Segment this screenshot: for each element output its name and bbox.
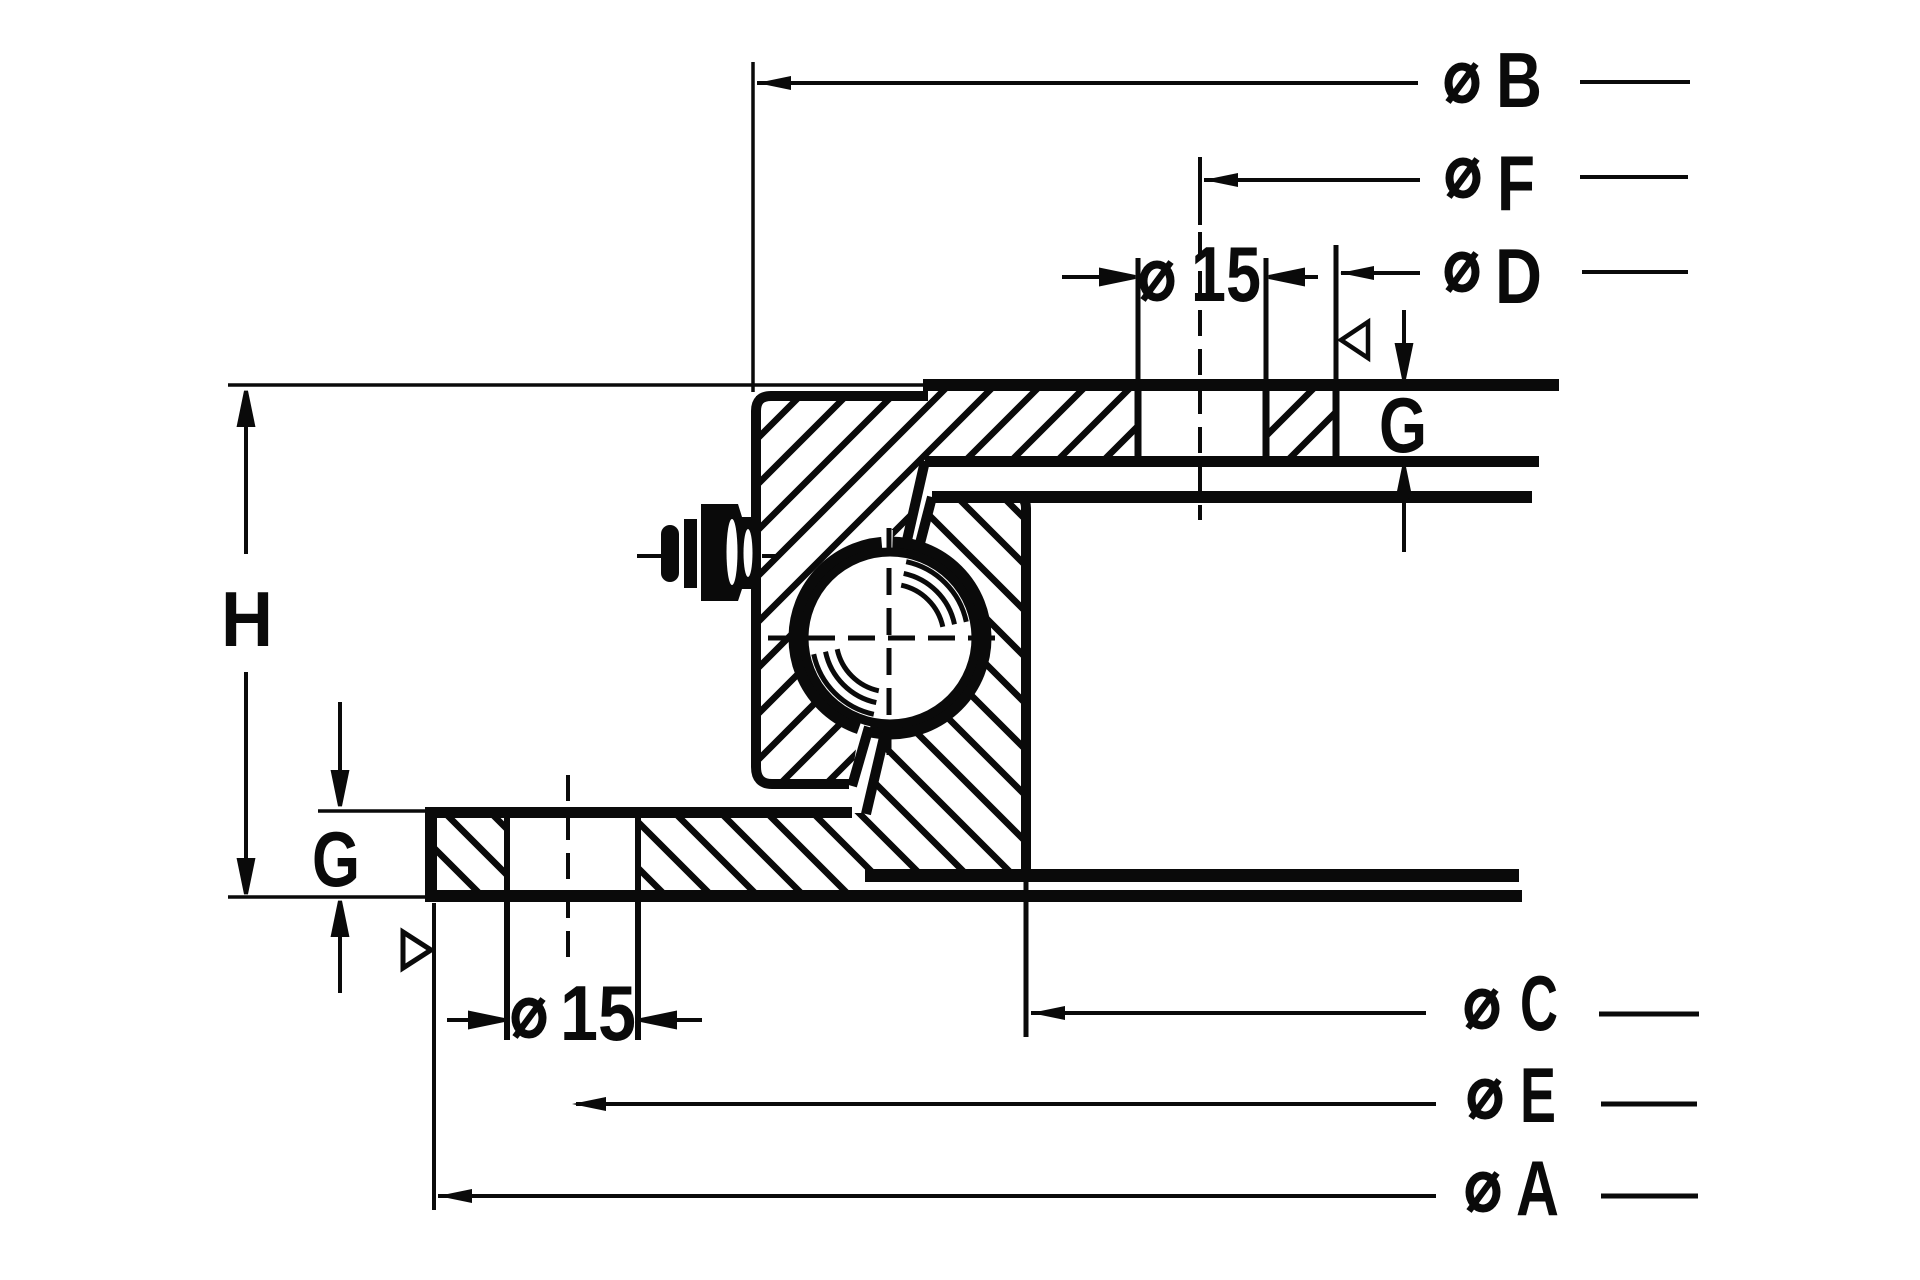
o15 bottom left arrow (447, 1013, 504, 1027)
oD flange edge (1333, 385, 1340, 461)
label oD (1448, 253, 1476, 291)
H bottom extension line (228, 895, 425, 899)
dimension oC line (1031, 1011, 1426, 1015)
raceway band (795, 543, 985, 733)
ball horizontal centerline (768, 636, 1008, 641)
o15 bottom right arrow (641, 1013, 702, 1027)
upper ring top seating line (923, 379, 1559, 391)
label oB (1448, 64, 1476, 102)
upper ring hatched body (756, 385, 1336, 784)
label oE (1471, 1080, 1499, 1118)
o15 top right arrow (1269, 270, 1318, 284)
grease nipple (661, 504, 757, 601)
oF right segment (1580, 175, 1688, 179)
oD arrowhead (1340, 266, 1374, 280)
lower plate top line (425, 807, 852, 818)
svg-text:15: 15 (1191, 230, 1261, 318)
label oC (1468, 990, 1496, 1028)
label oF (1449, 159, 1477, 197)
svg-text:A: A (1516, 1144, 1559, 1232)
oF dashed centerline (1198, 232, 1202, 520)
o15 top hole right wall (1263, 385, 1270, 461)
lower plate bottom line (425, 890, 1522, 902)
G bottom down arrow (333, 702, 347, 806)
G bottom up arrow (333, 901, 347, 993)
oE right segment (1601, 1102, 1697, 1107)
o15 bottom left extension (504, 818, 510, 1040)
G top up arrow (1397, 467, 1411, 552)
oC arrowhead (1031, 1006, 1065, 1020)
o15 top right extension (1264, 258, 1269, 388)
surface finish triangle top (1341, 322, 1368, 358)
oA right segment (1601, 1194, 1698, 1199)
svg-text:15: 15 (560, 969, 636, 1057)
lower parting diagonal top (918, 497, 932, 551)
ball (804, 552, 976, 724)
dimension oB extension line (751, 62, 755, 392)
oA extension line (432, 903, 436, 1210)
upper parting diagonal bottom (852, 727, 869, 786)
oA arrowhead (438, 1189, 472, 1203)
o15 top hole left wall (1135, 385, 1142, 461)
label o15 top (1143, 262, 1171, 300)
oB right segment (1580, 80, 1690, 84)
svg-text:F: F (1497, 139, 1535, 227)
dimension oD line (1341, 271, 1420, 275)
upper parting diagonal top (905, 461, 925, 549)
svg-text:G: G (312, 815, 360, 903)
lower ring wrap bottom line (865, 869, 1519, 882)
lower ring top line (932, 491, 1532, 503)
o15 top left arrow (1062, 270, 1135, 284)
o15 top left extension (1136, 258, 1141, 388)
raceway parting slit top (881, 530, 893, 560)
dimension oB line (757, 81, 1418, 85)
dimension oF line (1204, 178, 1420, 182)
oC extension line (1024, 880, 1029, 1037)
H dimension line upper (239, 391, 253, 554)
svg-text:E: E (1520, 1051, 1556, 1139)
surface finish triangle bottom (403, 932, 431, 968)
oE arrowhead (572, 1097, 606, 1111)
svg-text:B: B (1496, 36, 1542, 124)
raceway parting slit bottom (855, 712, 873, 744)
ball vertical centerline (887, 528, 892, 765)
G bottom extension line (318, 809, 425, 813)
upper ring block outline (756, 396, 928, 784)
svg-text:C: C (1520, 959, 1558, 1047)
dimension oB arrowhead (757, 76, 791, 90)
oE dashed centerline (566, 775, 570, 958)
upper flange bottom line (925, 456, 1539, 467)
G top down arrow (1397, 310, 1411, 379)
svg-text:G: G (1379, 381, 1427, 469)
svg-text:H: H (221, 575, 273, 663)
o15 bottom right extension (635, 818, 641, 1040)
dimension oF extension line (1198, 157, 1202, 225)
ball shading arcs upper-right (901, 562, 966, 627)
svg-text:D: D (1495, 232, 1542, 320)
grease nipple centerline (637, 554, 779, 558)
dimension oE line (576, 1102, 1436, 1106)
oC right segment (1599, 1012, 1699, 1017)
H dimension line lower (239, 672, 253, 894)
lower ring hatched body (430, 497, 1026, 896)
label oA (1469, 1173, 1497, 1211)
label o15 bottom (515, 999, 543, 1037)
dimension oA line (438, 1194, 1436, 1198)
lower parting diagonal bottom (866, 733, 885, 814)
ball shading arcs lower-left (814, 649, 879, 714)
oF arrowhead (1204, 173, 1238, 187)
lower plate left edge (425, 808, 437, 901)
oD extension line (1334, 245, 1339, 385)
lower ring right edge (932, 496, 1026, 874)
oD right segment (1582, 270, 1688, 274)
H top extension line (228, 383, 923, 387)
